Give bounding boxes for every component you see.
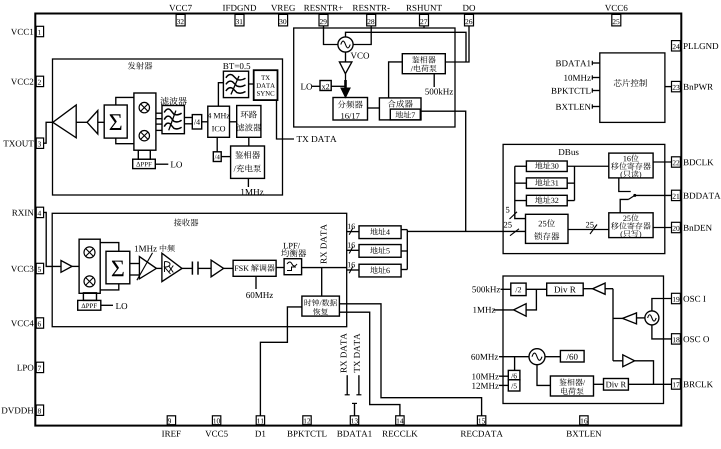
pin 10 VCC5 (bottom) xyxy=(212,416,220,425)
wire RESNTR+ to VCO xyxy=(324,26,338,45)
wire TX DATA SYNC to TX DATA xyxy=(277,100,295,139)
VCO buffer triangle (points down) xyxy=(339,62,352,74)
phase detector / charge pump box (clock) xyxy=(550,376,593,396)
wire APPF to LO label xyxy=(155,163,168,165)
pin 15 RECDATA (bottom) xyxy=(477,416,485,425)
wire OSC I pin to crystal xyxy=(652,299,672,311)
main vertical clock distribution line xyxy=(612,289,614,361)
wire BT filter down to ICO xyxy=(218,83,223,107)
pin 7 LPO (left) xyxy=(36,362,43,372)
label 10MHz xyxy=(472,373,475,379)
wire RXIN to LNA xyxy=(43,212,61,266)
label: receiver title xyxy=(174,219,182,227)
wire 16-bit shreg to BDCLK xyxy=(653,161,671,163)
divide-by-60 box xyxy=(560,351,584,363)
Div R box (top) xyxy=(547,283,584,296)
clock/data recovery box xyxy=(302,296,340,316)
label 60MHz (clock) xyxy=(471,354,475,360)
wire DO pin to phase detector xyxy=(445,26,469,62)
pin 2 VCC2 (left) xyxy=(36,76,43,86)
addr31/32 right stubs + vertical xyxy=(567,182,574,184)
pin 31 IFDGND (top) xyxy=(235,14,244,26)
wire osc down to phase det (clock) xyxy=(537,365,550,386)
phase detector / charge pump box (TX) xyxy=(231,146,265,178)
wire BRCLK buffer out xyxy=(635,361,654,384)
bus 16 from receiver to addr4 xyxy=(347,231,359,233)
wire vertical to BRCLK buffer xyxy=(613,360,623,362)
TX DATA SYNC box xyxy=(254,70,278,100)
pin 13 BDATA1 (bottom) xyxy=(350,416,358,425)
wire loop filter down to phase detector xyxy=(248,137,250,146)
label LO (TX) xyxy=(171,162,176,168)
label 1MHz (clock) xyxy=(473,307,476,313)
address 32 box xyxy=(526,195,567,206)
wire junction down to clock/data recovery xyxy=(321,268,323,297)
bus width 5 label+slash xyxy=(506,207,509,213)
FSK demodulator box xyxy=(233,260,276,276)
wire recovery to D1 pin xyxy=(260,307,302,416)
wire synthesizer output down to DBus latch line xyxy=(421,111,466,231)
label DBus xyxy=(559,149,565,155)
wire tee down to 1MHz buffer xyxy=(526,289,536,310)
bus 16 from receiver to addr5 xyxy=(347,249,359,251)
wire addr30 to 16-bit shift register xyxy=(567,165,609,167)
synthesizer box xyxy=(379,98,421,120)
label RX DATA (vertical, in receiver) xyxy=(321,224,327,263)
APPF box (RX) xyxy=(78,300,101,310)
wire chip control to BnPWR xyxy=(665,86,672,88)
wire FSK to LPF xyxy=(276,267,284,269)
label: filter xyxy=(160,97,168,105)
label 500kHz (PLL) xyxy=(425,89,429,95)
pin 5 VCC3 (left) xyxy=(36,263,43,273)
switch arm to BDDATA xyxy=(629,195,635,199)
pin 16 BXTLEN (bottom) xyxy=(580,416,588,425)
wire OSC O pin to crystal xyxy=(652,325,672,339)
wire LNA to RX mixer xyxy=(72,265,79,267)
wire addr4 to DBus latch (25 bus) xyxy=(407,230,525,232)
address 30 box xyxy=(526,161,567,172)
chip-control input BXTLEN xyxy=(556,104,561,110)
address 4 register box xyxy=(359,226,401,239)
chip control box xyxy=(600,53,665,123)
wire 12MHz to /5 xyxy=(499,384,508,386)
arrow buffer to divider xyxy=(345,74,347,88)
receiver block box xyxy=(52,213,347,326)
loop filter box xyxy=(237,106,261,138)
wire recovery to RECDATA pin xyxy=(339,304,481,416)
bus 16 from receiver to addr6 xyxy=(347,269,359,271)
wire 16-bit shreg to switch upper contact xyxy=(619,178,631,192)
bus width 25 label+slash (latch to shreg) xyxy=(586,222,589,228)
label 500kHz (clock) xyxy=(472,286,476,292)
pin 30 VREG (top) xyxy=(279,14,288,26)
BDATA1 stub line xyxy=(354,403,356,415)
label: transmitter title xyxy=(128,62,136,70)
label 1MHz IF xyxy=(135,246,138,252)
BT gaussian filter box xyxy=(223,71,248,97)
chip-control input BPKTCTL xyxy=(551,88,556,94)
pin 6 VCC4 (left) xyxy=(36,318,43,328)
LNA triangle (points right) xyxy=(61,261,72,273)
wire 25-bit shreg to BnDEN pin xyxy=(653,227,671,229)
wire driver amp to sigma xyxy=(98,121,104,123)
wire limiter to IF amp xyxy=(156,267,162,269)
LPF box xyxy=(284,259,302,275)
divide-by-4 box (PD path) xyxy=(213,152,221,162)
label VCO xyxy=(351,53,357,59)
wire 60MHz to osc circle xyxy=(499,356,529,358)
pin 19 OSC I (right) xyxy=(672,293,681,303)
pin 3 TXOUT (left) xyxy=(36,138,43,148)
label 12MHz xyxy=(472,383,475,389)
25-bit latch box xyxy=(526,214,569,243)
addr30 left stub xyxy=(515,165,527,167)
PA amplifier triangle (points left) xyxy=(53,105,76,138)
wire FSK demod to 60MHz xyxy=(255,276,257,289)
TX DATA stub line xyxy=(358,375,360,395)
mixer pedestal xyxy=(138,150,150,159)
APPF box (TX) xyxy=(133,159,156,168)
label 1MHz (TX) xyxy=(241,189,244,195)
4MHz ICO box xyxy=(208,106,230,137)
buffer triangle after Div R (points left) xyxy=(593,283,606,294)
wire crystal osc to buffer xyxy=(637,317,645,319)
label LPF/equalizer xyxy=(283,243,287,249)
chip-control input BDATA1 xyxy=(556,60,561,66)
wire div2 to Div R xyxy=(526,288,547,290)
VCO oscillator circle xyxy=(338,37,353,52)
wire osc to /60 xyxy=(545,356,560,358)
RX mixer block box xyxy=(79,239,100,293)
TX filter box xyxy=(162,106,184,134)
wire RSHUNT stub xyxy=(423,26,425,29)
phase detector / charge pump box (PLL) xyxy=(402,54,445,74)
pin 21 BDDATA (right) xyxy=(672,190,681,200)
wire phase det to 500kHz xyxy=(433,74,435,87)
wires filter to div4 (2) xyxy=(184,117,192,119)
coupling capacitor xyxy=(191,262,193,275)
pin 32 VCC7 (top) xyxy=(176,14,185,26)
transmitter block box xyxy=(53,59,283,195)
wire 500kHz to div2 xyxy=(501,288,511,290)
wire post amp to FSK demod xyxy=(224,267,234,269)
pin 22 BDCLK (right) xyxy=(672,157,681,167)
pin 23 BnPWR (right) xyxy=(672,81,681,91)
pin 9 IREF (bottom) xyxy=(167,416,175,425)
pin 4 RXIN (left) xyxy=(36,207,43,217)
wire BT filter to TX DATA SYNC xyxy=(249,83,254,85)
wire ICO down to div4b xyxy=(216,137,218,152)
divide-by-6 box xyxy=(508,370,520,379)
limiter triangle with slash xyxy=(139,257,156,279)
RX DATA stub line xyxy=(346,375,348,395)
sigma box (RX) xyxy=(106,251,130,283)
wire buffer to main vertical xyxy=(605,288,613,290)
label RX DATA (vertical, bottom) xyxy=(341,333,347,372)
pin 27 RSHUNT (top) xyxy=(420,14,429,26)
16-bit shift register (read only) box xyxy=(609,153,653,178)
PLL block box xyxy=(294,28,455,127)
crystal oscillator circle xyxy=(645,311,659,325)
wire APPF to LO label (RX) xyxy=(101,304,113,306)
divide-by-5 box xyxy=(508,380,520,391)
wire Div R to BRCLK pin xyxy=(628,383,671,385)
RX mixer pedestal xyxy=(83,293,96,301)
wire bracket mixer to sigma bottom (RX) xyxy=(100,284,119,290)
RX mixer I (circle-X) xyxy=(84,247,95,258)
pin 20 BnDEN (right) xyxy=(672,222,681,232)
25-bit shift register (write only) box xyxy=(609,213,653,238)
divide-by-4 box xyxy=(192,115,201,129)
crystal buffer triangle (points left) xyxy=(623,313,637,324)
wire div4b to phase detector xyxy=(221,156,230,158)
wire 10MHz to /6 xyxy=(499,375,508,377)
wire RESNTR- to VCO xyxy=(354,26,372,45)
divide-by-2 box xyxy=(511,283,526,296)
wire crystal buffer to vertical xyxy=(613,317,623,319)
wire bracket sigma bottom to mixer xyxy=(116,138,134,144)
wire 25-bit shreg to switch lower contact xyxy=(620,199,628,212)
Div R box (bottom) xyxy=(604,379,629,391)
TX mixer Q (circle-X) xyxy=(139,131,149,141)
addr32 left stub xyxy=(515,200,527,202)
address 31 box xyxy=(526,178,567,189)
clock generator block box xyxy=(503,276,664,404)
pin 1 VCC1 (left) xyxy=(36,26,43,36)
TX mixer block box xyxy=(134,93,156,150)
wire bracket mixer to sigma top (RX) xyxy=(100,243,119,252)
wire Div R to buffer xyxy=(583,288,592,290)
driver amplifier triangle (points left) xyxy=(87,111,98,135)
pin 24 PLLGND (right) xyxy=(672,41,681,51)
pin 8 DVDDH (left) xyxy=(36,405,43,415)
wire phase det to Div R (bottom) xyxy=(594,383,604,385)
address 6 register box xyxy=(359,264,401,277)
sigma modulator box xyxy=(104,105,127,138)
wires mixer to filter (4) xyxy=(156,112,162,114)
wire LPF to receiver edge (RX DATA) xyxy=(302,267,347,269)
label LO (RX) xyxy=(116,303,121,309)
wire cap to post amp xyxy=(198,267,211,269)
pin 18 OSC O (right) xyxy=(672,334,681,344)
addr4/5/6 right-edge stubs and join vertical xyxy=(401,229,407,231)
wire ICO to loop filter xyxy=(230,121,237,123)
wire recovery to RECCLK pin xyxy=(339,312,400,416)
wire PA to driver amp xyxy=(76,121,87,123)
address 5 register box xyxy=(359,245,401,258)
bus width 25 label+slash (into latch) xyxy=(504,222,507,228)
wire synthesizer up to phase det xyxy=(389,62,403,98)
label TX DATA xyxy=(297,136,302,142)
pin 11 D1 (bottom) xyxy=(256,416,264,425)
wire VCO to buffer xyxy=(345,53,347,62)
wire divider to synthesizer xyxy=(368,107,380,109)
BRCLK buffer triangle (points right) xyxy=(623,355,635,367)
chip-control input 10MHz xyxy=(564,75,567,81)
wire IF amp to cap xyxy=(182,267,192,269)
left vertical bus to latch xyxy=(515,166,526,218)
pin 26 DO (top) xyxy=(465,14,474,26)
pin 28 RESNTR- (top) xyxy=(367,14,376,26)
wire TXOUT pin to PA xyxy=(43,122,53,143)
wire bracket sigma top to mixer xyxy=(116,97,134,105)
wire phase detector to 1MHz xyxy=(247,178,249,187)
divider 16/17 box xyxy=(333,98,368,121)
pin 14 RECCLK (bottom) xyxy=(396,416,404,425)
label BT=0.5 xyxy=(223,63,228,69)
wire switch to BDDATA pin xyxy=(635,194,672,196)
TX mixer I (circle-X) xyxy=(139,102,149,112)
wire x2 to divider input line xyxy=(331,85,345,87)
label TX DATA (vertical, bottom) xyxy=(354,333,360,372)
wire div4 to ICO xyxy=(202,121,208,123)
x2 multiplier box xyxy=(320,81,331,91)
branch down to /6 /5 xyxy=(514,357,516,371)
post amp triangle xyxy=(211,260,224,277)
wires sigma to limiter (2) xyxy=(130,263,140,265)
label 60MHz (RX) xyxy=(246,292,250,298)
wire VCO top to phase detector (feedback) xyxy=(346,32,467,62)
pin 29 RESNTR+ (top) xyxy=(319,14,328,26)
1MHz buffer triangle (points left) xyxy=(514,304,527,317)
wire 1MHz label to buffer xyxy=(494,309,514,311)
IF amp triangle with symbol xyxy=(162,253,182,281)
wire LO to x2 xyxy=(312,85,320,87)
RX mixer Q (circle-X) xyxy=(84,276,95,287)
address-7 box xyxy=(390,109,420,120)
pin 25 VCC6 (top) xyxy=(612,14,621,26)
wire latch to 25-bit shreg xyxy=(568,229,609,231)
addr31 left stub xyxy=(515,182,527,184)
pin 12 BPKTCTL (bottom) xyxy=(303,416,311,425)
label LO (PLL) xyxy=(301,84,306,90)
60MHz oscillator circle xyxy=(529,349,545,365)
pin 17 BRCLK (right) xyxy=(672,379,681,389)
DBus block box xyxy=(503,144,665,253)
